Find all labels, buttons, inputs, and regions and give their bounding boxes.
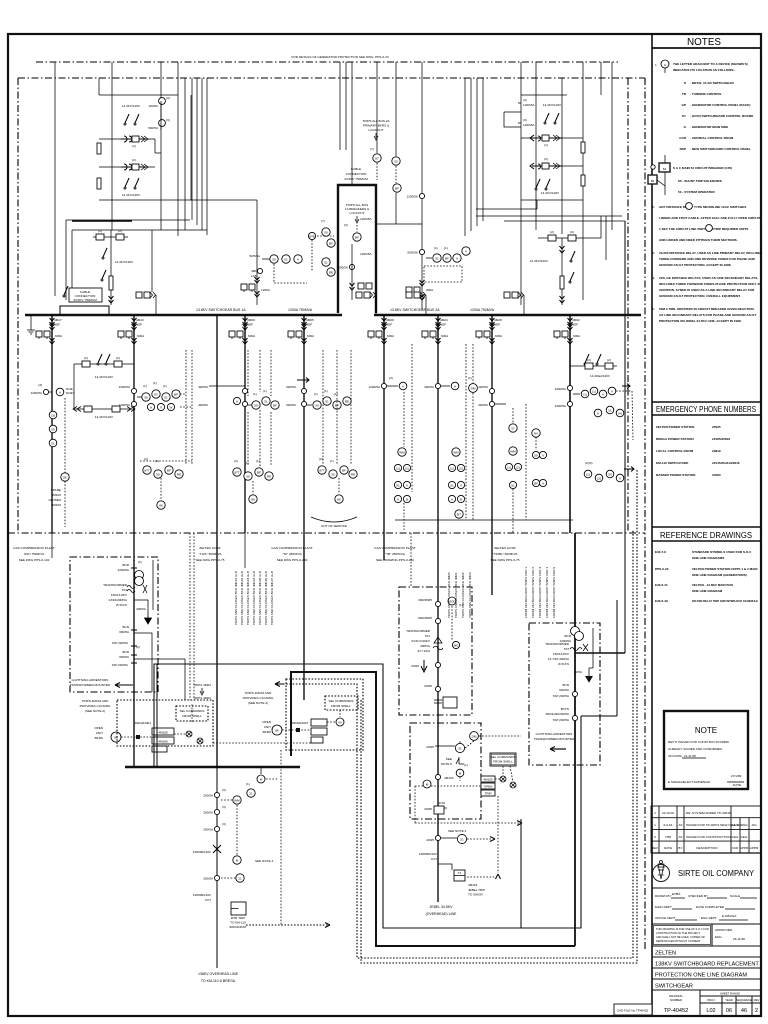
svg-text:4.: 4. (652, 276, 655, 280)
relay boxes stack (481, 776, 495, 782)
svg-text:51: 51 (458, 746, 462, 750)
svg-text:BF: BF (395, 186, 399, 190)
svg-text:REFERENCE DRAWINGS: REFERENCE DRAWINGS (660, 531, 753, 540)
svg-text:LOCAL CONTROL ROOM: LOCAL CONTROL ROOM (656, 449, 694, 453)
svg-text:JEBEL TRIP: JEBEL TRIP (468, 888, 485, 892)
svg-text:21: 21 (608, 408, 612, 412)
svg-text:600A: 600A (248, 334, 256, 338)
svg-text:138KV SWITCHBOARD REPLACEMENT: 138KV SWITCHBOARD REPLACEMENT (655, 962, 759, 968)
svg-text:(2): (2) (516, 465, 520, 469)
svg-text:ZELTEN GOSP: ZELTEN GOSP (494, 546, 515, 550)
aux relay below bus (260, 767, 262, 774)
long cable drop to T03 (624, 221, 626, 653)
svg-text:CONNECTION: CONNECTION (346, 172, 367, 176)
svg-text:LINKED AND FOOT CABLE. AFTER: LINKED AND FOOT CABLE. AFTER 12AC ARE FU… (659, 216, 761, 220)
svg-text:M: M (260, 777, 263, 781)
svg-text:138000/110V: 138000/110V (419, 852, 438, 856)
svg-text:BCR: BCR (122, 650, 129, 654)
svg-text:(1): (1) (459, 603, 463, 607)
svg-text:DM: DM (472, 734, 477, 738)
34.5kv lower bus (125, 766, 300, 769)
svg-text:1200/5A: 1200/5A (523, 103, 535, 107)
svg-text:87T: 87T (319, 468, 324, 472)
svg-text:- NEW SWITCHBOARD CONTROL PANE: - NEW SWITCHBOARD CONTROL PANEL (690, 147, 751, 151)
svg-text:(2): (2) (405, 466, 409, 470)
note breaker symbol (664, 155, 666, 195)
svg-text:TO KM-110: TO KM-110 (230, 921, 246, 925)
svg-text:PRIMARY BKRS &: PRIMARY BKRS & (363, 124, 390, 128)
dashed pair x=312 (308, 232, 315, 239)
svg-text:TO SWGR: TO SWGR (468, 893, 483, 897)
svg-text:27/1/89: 27/1/89 (731, 774, 742, 778)
svg-text:51: 51 (51, 441, 55, 445)
svg-text:43: 43 (338, 720, 342, 724)
svg-text:400/5A: 400/5A (198, 385, 209, 389)
svg-text:SEE DWG PPS-0-102: SEE DWG PPS-0-102 (19, 558, 50, 562)
svg-text:WM: WM (510, 449, 516, 453)
svg-text:600A: 600A (495, 334, 503, 338)
svg-text:120/5A: 120/5A (148, 104, 159, 108)
svg-text:24083: 24083 (712, 473, 721, 477)
svg-text:- GENERATOR MAIN SIDE: - GENERATOR MAIN SIDE (690, 125, 728, 129)
svg-text:SWGR/DIST: SWGR/DIST (229, 925, 247, 929)
svg-text:NEF: NEF (247, 323, 253, 327)
transformer T03 dash-dot box (529, 623, 600, 765)
mtr trip dotted run (246, 924, 330, 926)
svg-text:14.4KV/120V: 14.4KV/120V (115, 260, 134, 264)
svg-text:(1): (1) (163, 384, 167, 388)
svg-text:TRANSFORMER: TRANSFORMER (103, 583, 128, 587)
svg-text:SEE DWG PPS-0-75: SEE DWG PPS-0-75 (196, 558, 225, 562)
svg-text:2: 2 (755, 1008, 758, 1014)
svg-text:(3): (3) (38, 383, 42, 387)
svg-text:MD: MD (454, 643, 460, 647)
svg-text:21/400 DISTANCE RELAY, USED AS: 21/400 DISTANCE RELAY, USED AS LINE PRIM… (659, 251, 762, 255)
svg-text:AND SHALL NOT BE USED, COPIED: AND SHALL NOT BE USED, COPIED OR (656, 935, 705, 939)
svg-text:ONE LINE DIAGRAM: ONE LINE DIAGRAM (692, 589, 723, 593)
svg-text:SCALE: SCALE (730, 894, 740, 898)
svg-text:RE: RE (345, 399, 349, 403)
svg-text:NUMBER: NUMBER (670, 998, 682, 1002)
svg-text:(2)(3): (2)(3) (585, 461, 593, 465)
svg-text:4M101: 4M101 (468, 883, 478, 887)
wire bundle left (191, 78, 193, 220)
svg-text:(1): (1) (468, 376, 472, 380)
svg-text:200/5: 200/5 (426, 745, 434, 749)
svg-text:(1): (1) (324, 389, 328, 393)
svg-text:20819: 20819 (712, 449, 721, 453)
svg-text:(2): (2) (319, 457, 323, 461)
svg-text:PPS-0-23: PPS-0-23 (655, 567, 669, 571)
svg-text:4M106: 4M106 (52, 503, 62, 507)
svg-text:TRIPS ALL BUS 2A: TRIPS ALL BUS 2A (362, 119, 390, 123)
svg-text:OPEN: OPEN (262, 720, 271, 724)
svg-text:M: M (459, 771, 462, 775)
svg-text:200/5A: 200/5A (203, 877, 214, 881)
svg-text:NSP: NSP (680, 147, 686, 151)
svg-text:SPARE: SPARE (51, 488, 61, 492)
svg-text:1200A: 1200A (261, 288, 271, 292)
svg-text:MTR TRIP: MTR TRIP (231, 916, 246, 920)
svg-text:(1): (1) (464, 763, 468, 767)
svg-text:BKRS: BKRS (95, 736, 103, 740)
svg-text:20035: 20035 (712, 425, 721, 429)
svg-text:- CENTRAL CONTROL ROOM: - CENTRAL CONTROL ROOM (690, 136, 734, 140)
svg-text:50: 50 (272, 257, 276, 261)
svg-text:NEF: NEF (440, 323, 446, 327)
svg-text:50M A 50BL MOUNTED IN CIRCUIT: 50M A 50BL MOUNTED IN CIRCUIT BREAKER GI… (659, 307, 755, 311)
svg-text:APPR: APPR (740, 846, 749, 850)
svg-text:(1): (1) (263, 389, 267, 393)
svg-text:W: W (170, 405, 173, 409)
svg-text:1A5: 1A5 (251, 274, 257, 278)
transformer symbol (135, 571, 144, 580)
svg-text:51: 51 (435, 256, 439, 260)
svg-text:06: 06 (726, 1008, 732, 1014)
circles left of loop (322, 228, 330, 236)
svg-text:(SEE NOTE 2): (SEE NOTE 2) (248, 701, 268, 705)
svg-text:(1): (1) (583, 392, 587, 396)
svg-text:E.SWAGA/ELECT.SUP/ENGR: E.SWAGA/ELECT.SUP/ENGR (668, 780, 711, 784)
svg-text:TP-40452: TP-40452 (664, 1008, 689, 1014)
svg-text:(3): (3) (166, 118, 170, 122)
incomer breakers above bus (136, 292, 142, 298)
svg-text:APPR: APPR (750, 846, 759, 850)
svg-text:CVT: CVT (205, 898, 211, 902)
svg-text:ISSUED FOR CONSTRUCTION: ISSUED FOR CONSTRUCTION (686, 835, 731, 839)
svg-text:4M24: 4M24 (440, 318, 448, 322)
svg-text:(2): (2) (118, 229, 122, 233)
svg-text:S: S (684, 81, 686, 85)
svg-text:4M28: 4M28 (494, 318, 502, 322)
svg-text:DATE: DATE (664, 846, 672, 850)
svg-text:50: 50 (331, 472, 335, 476)
svg-text:34.5KV 750MCM: 34.5KV 750MCM (344, 177, 368, 181)
disconnects above bus left (63, 295, 65, 297)
long feeder from bus1A (216, 315, 218, 767)
svg-text:LIGHTNING ARRESTORS: LIGHTNING ARRESTORS (72, 678, 109, 682)
svg-text:86: 86 (251, 497, 255, 501)
svg-text:"TB" 2500KVA: "TB" 2500KVA (385, 552, 406, 556)
svg-text:1200/5A: 1200/5A (117, 568, 129, 572)
svg-text:NEF: NEF (54, 323, 60, 327)
svg-text:THE LETTER ADJACENT TO A DEVIC: THE LETTER ADJACENT TO A DEVICE (SHOWN S… (673, 62, 748, 66)
bay link line y=520 (395, 519, 573, 521)
plant boundary dash-dot top (18, 77, 645, 79)
company band with logo (652, 852, 761, 854)
svg-text:RE: RE (329, 270, 333, 274)
svg-text:CONSTRUCTION OF THE PROJECT: CONSTRUCTION OF THE PROJECT (656, 931, 700, 935)
svg-text:SEQUENCE: SEQUENCE (736, 998, 752, 1002)
svg-text:86: 86 (275, 729, 279, 733)
svg-text:BY: BY (678, 846, 682, 850)
command cluster left (80, 683, 311, 752)
svg-text:TRIPS 4M103 AND: TRIPS 4M103 AND (245, 691, 272, 695)
svg-text:PROVIDES CLOSING: PROVIDES CLOSING (243, 696, 274, 700)
svg-text:50: 50 (534, 453, 538, 457)
svg-text:(1): (1) (153, 381, 157, 385)
plant boundary dash-dot left (17, 78, 19, 533)
svg-text:(7): (7) (370, 147, 374, 151)
svg-text:200/5A: 200/5A (203, 811, 214, 815)
svg-text:7/89: 7/89 (665, 835, 671, 839)
transformer T04 dash-dot box (70, 557, 158, 692)
svg-text:SEL COMMANDS: SEL COMMANDS (329, 699, 354, 703)
svg-text:(2): (2) (607, 358, 611, 362)
svg-text:600/380/5: 600/380/5 (418, 598, 432, 602)
routing lines left (66, 219, 190, 221)
svg-text:(3): (3) (389, 376, 393, 380)
svg-text:Z=8.0%: Z=8.0% (116, 603, 127, 607)
svg-text:51: 51 (284, 257, 288, 261)
bus1A left end symbols (30, 315, 32, 330)
NOTE box (664, 711, 748, 789)
svg-text:DATE COMPLETED: DATE COMPLETED (696, 905, 725, 909)
svg-text:TAP 200/5A: TAP 200/5A (112, 641, 129, 645)
svg-text:14.4KV/120V: 14.4KV/120V (122, 104, 141, 108)
svg-text:OUT OF SERVICE: OUT OF SERVICE (321, 524, 347, 528)
svg-text:REV: REV (754, 998, 760, 1002)
svg-text:THIS DRAWING IS FOR USE OF S.O: THIS DRAWING IS FOR USE OF S.O.C FOR (656, 927, 709, 931)
svg-text:50: 50 (608, 472, 612, 476)
heavy cable branch to T03 (575, 652, 625, 654)
svg-text:S A C MAIN 52 CIRCUIT BREAKER: S A C MAIN 52 CIRCUIT BREAKER (C/B) (673, 166, 732, 170)
svg-text:AWG: AWG (740, 823, 748, 827)
svg-text:TRIPS 4M03: TRIPS 4M03 (193, 696, 211, 700)
svg-text:CEG: CEG (741, 835, 748, 839)
svg-text:(2): (2) (116, 356, 120, 360)
svg-text:M: M (426, 782, 429, 786)
svg-text:600/1100/200/5A: 600/1100/200/5A (546, 712, 570, 716)
svg-text:ZELTEN - 13.8KV MAIN BUS: ZELTEN - 13.8KV MAIN BUS (692, 583, 733, 587)
svg-text:BREGA POWER STATION: BREGA POWER STATION (656, 437, 694, 441)
svg-text:51: 51 (450, 483, 454, 487)
svg-text:BCN: BCN (562, 683, 569, 687)
svg-text:600A: 600A (441, 334, 449, 338)
svg-text:SWGR4007: SWGR4007 (292, 721, 309, 725)
svg-text:138KV OVERHEAD LINE: 138KV OVERHEAD LINE (198, 972, 239, 976)
svg-text:GROUND FAULT PROTECTION. OVERA: GROUND FAULT PROTECTION. OVERALL EQUIPME… (659, 294, 741, 298)
svg-text:SEL COMMANDS: SEL COMMANDS (491, 755, 516, 759)
svg-text:(2): (2) (570, 230, 574, 234)
svg-text:400/5A: 400/5A (424, 385, 435, 389)
heavy cable thick loop (291, 672, 575, 946)
svg-text:TRIPS AND CLOSES BKR 4M21: TRIPS AND CLOSES BKR 4M21 (454, 572, 458, 618)
svg-text:NOTE: NOTE (695, 726, 717, 735)
svg-text:(1): (1) (330, 459, 334, 463)
svg-text:21: 21 (460, 837, 464, 841)
svg-text:26.11.88: 26.11.88 (733, 937, 745, 941)
bus section x=257 (256, 200, 258, 305)
svg-text:50: 50 (254, 403, 258, 407)
svg-text:JJG: JJG (751, 823, 757, 827)
PT cluster low-right (530, 216, 601, 305)
svg-text:GSO 7500KVA: GSO 7500KVA (24, 552, 46, 556)
svg-text:600/5A: 600/5A (559, 688, 570, 692)
plant boundary dash-dot right (644, 78, 646, 950)
svg-text:51: 51 (396, 483, 400, 487)
tie rows between bay1-2 (73, 354, 135, 419)
svg-text:FROM ZELTEN GOSP T26B1 FDR 4: FROM ZELTEN GOSP T26B1 FDR 4 (545, 567, 549, 618)
svg-text:WM: WM (453, 450, 459, 454)
svg-text:138/13.8KV: 138/13.8KV (111, 593, 128, 597)
svg-text:51: 51 (164, 395, 168, 399)
svg-text:200/5A: 200/5A (203, 828, 214, 832)
svg-text:138000/110V: 138000/110V (193, 850, 212, 854)
svg-text:NEF: NEF (136, 323, 142, 327)
svg-text:"TA" 2500KVA: "TA" 2500KVA (282, 552, 303, 556)
svg-text:50 - SYSTEM OPERATED: 50 - SYSTEM OPERATED (678, 190, 715, 194)
svg-text:87B: 87B (309, 234, 315, 238)
svg-text:CEG: CEG (732, 823, 739, 827)
svg-text:BCTS: BCTS (561, 707, 569, 711)
svg-text:TRANSFORMER MOUNTED: TRANSFORMER MOUNTED (534, 737, 575, 741)
svg-text:(3): (3) (523, 118, 527, 122)
svg-text:46: 46 (741, 1008, 747, 1014)
disclaimer row (652, 924, 761, 946)
svg-text:PROTECTION ON JEBEL 34.5KV LIN: PROTECTION ON JEBEL 34.5KV LINE. ACCEPT … (659, 319, 742, 323)
bus 2A (374, 314, 641, 317)
svg-text:T04: T04 (122, 588, 128, 592)
svg-text:21.11.88: 21.11.88 (684, 754, 696, 758)
svg-text:CKD: CKD (732, 846, 739, 850)
svg-text:600A: 600A (137, 334, 145, 338)
svg-text:21: 21 (238, 876, 242, 880)
bus 1A (25, 314, 342, 317)
svg-text:1200A 750MVA: 1200A 750MVA (288, 308, 313, 312)
top drop wires left (54, 62, 56, 296)
svg-text:BT: BT (457, 512, 461, 516)
svg-text:4M105: 4M105 (483, 778, 493, 782)
svg-text:EMERGENCY PHONE NUMBERS: EMERGENCY PHONE NUMBERS (656, 405, 756, 414)
drawn-by rows (655, 892, 757, 920)
incomer relay row (433, 254, 441, 262)
svg-text:BCR: BCR (122, 563, 129, 567)
svg-text:14.4KV/120V: 14.4KV/120V (122, 193, 141, 197)
svg-text:WM: WM (234, 798, 240, 802)
svg-text:13.8KV SWITCHGEAR BUS 1A: 13.8KV SWITCHGEAR BUS 1A (196, 308, 246, 312)
plant boundary dash-dot line (8, 532, 645, 534)
svg-text:TRIPS AND CLOSES BKR 4M104 A+B: TRIPS AND CLOSES BKR 4M104 A+B (252, 571, 256, 625)
svg-text:21045/20431/20818: 21045/20431/20818 (712, 461, 740, 465)
svg-text:600A: 600A (55, 334, 63, 338)
svg-text:1200/5A: 1200/5A (368, 385, 380, 389)
svg-text:B: B (460, 497, 462, 501)
svg-text:BF: BF (273, 403, 277, 407)
svg-text:(3): (3) (344, 223, 348, 227)
svg-text:(4): (4) (618, 411, 622, 415)
lower cluster (233, 468, 241, 476)
svg-text:51: 51 (511, 483, 515, 487)
svg-text:50: 50 (246, 474, 250, 478)
svg-text:GAS COMPRESSION PLANT: GAS COMPRESSION PLANT (271, 546, 313, 550)
svg-text:GROUND FAULT PROTECTION. ACCEP: GROUND FAULT PROTECTION. ACCEPT IN 1988. (659, 263, 732, 267)
svg-text:86: 86 (651, 179, 655, 183)
svg-text:1200/5A: 1200/5A (118, 403, 130, 407)
svg-text:400/5A: 400/5A (478, 385, 489, 389)
svg-text:1: 1 (654, 823, 656, 827)
svg-text:1200/5A: 1200/5A (360, 252, 372, 256)
svg-text:CABLE: CABLE (351, 167, 361, 171)
svg-text:13/16/20MVA: 13/16/20MVA (108, 598, 127, 602)
svg-text:4M106: 4M106 (158, 740, 168, 744)
svg-text:ONE LINE DIAGRAM (GENERATORS): ONE LINE DIAGRAM (GENERATORS) (692, 573, 747, 577)
svg-text:400/5: 400/5 (426, 838, 434, 842)
svg-text:THREE FORWARD AND ONE REVERSE: THREE FORWARD AND ONE REVERSE ZONES FOR … (659, 257, 756, 261)
svg-text:(2): (2) (138, 560, 142, 564)
svg-text:57: 57 (511, 426, 515, 430)
svg-text:TO KM-110 & BREGA: TO KM-110 & BREGA (201, 979, 236, 983)
svg-text:PROTECTION ONE LINE DIAGRAM: PROTECTION ONE LINE DIAGRAM (655, 973, 747, 979)
svg-text:NON: NON (438, 801, 445, 805)
svg-text:600/5A: 600/5A (119, 655, 130, 659)
svg-text:(1): (1) (256, 459, 260, 463)
svg-text:51: 51 (324, 260, 328, 264)
svg-text:1.: 1. (655, 63, 658, 67)
svg-text:(1): (1) (507, 465, 511, 469)
svg-text:BF: BF (445, 256, 449, 260)
svg-text:GAS COMPRESSION PLANT: GAS COMPRESSION PLANT (13, 546, 55, 550)
svg-text:INDICATES ITS LOCATION AS FOLL: INDICATES ITS LOCATION AS FOLLOWS:- (673, 68, 735, 72)
svg-text:51: 51 (325, 399, 329, 403)
svg-text:600A: 600A (387, 334, 395, 338)
svg-text:1200/5A: 1200/5A (360, 217, 372, 221)
svg-text:13.7/16.33MVA: 13.7/16.33MVA (548, 657, 570, 661)
svg-text:(3): (3) (597, 476, 601, 480)
svg-text:(1): (1) (396, 466, 400, 470)
svg-text:(2): (2) (459, 466, 463, 470)
svg-text:(3): (3) (222, 822, 226, 826)
svg-text:50/5/5A: 50/5/5A (407, 251, 419, 255)
svg-text:CAD FILE No.TP40452: CAD FILE No.TP40452 (617, 1009, 649, 1013)
svg-text:E30-7-8: E30-7-8 (655, 550, 666, 554)
svg-text:600/5A: 600/5A (286, 385, 297, 389)
svg-text:50: 50 (324, 230, 328, 234)
svg-text:200/5: 200/5 (424, 684, 432, 688)
svg-text:1200/5A: 1200/5A (336, 266, 348, 270)
svg-text:RE: SYSTEM ADDED TP-4001P: RE: SYSTEM ADDED TP-4001P (686, 811, 731, 815)
svg-text:EHBA: EHBA (672, 892, 680, 896)
svg-text:NOTES: NOTES (687, 37, 721, 48)
svg-text:50: 50 (144, 395, 148, 399)
svg-text:400/5A: 400/5A (136, 607, 147, 611)
svg-text:APPROVED: APPROVED (715, 928, 733, 932)
svg-text:(1): (1) (434, 246, 438, 250)
svg-text:(SEE NOTE 2): (SEE NOTE 2) (85, 709, 105, 713)
svg-text:4M17: 4M17 (54, 318, 62, 322)
svg-text:ONE LINE DIAGRAMS: ONE LINE DIAGRAMS (692, 556, 724, 560)
svg-text:INCLUDES THREE FORWARD ZONES P: INCLUDES THREE FORWARD ZONES PHASE PROTE… (659, 282, 762, 286)
svg-text:TAP 200/5A: TAP 200/5A (553, 694, 570, 698)
disconnect row right (570, 365, 617, 367)
svg-text:AS LINE SECONDARY RELAYS FOR P: AS LINE SECONDARY RELAYS FOR PHASE AND G… (659, 313, 756, 317)
svg-text:51: 51 (264, 399, 268, 403)
svg-text:600/5A: 600/5A (286, 403, 297, 407)
svg-text:13.8KV SWITCHGEAR BUS 2A: 13.8KV SWITCHGEAR BUS 2A (390, 308, 440, 312)
svg-text:34.5/13.09KV: 34.5/13.09KV (411, 639, 431, 643)
svg-text:87: 87 (375, 156, 379, 160)
svg-text:3.: 3. (652, 251, 655, 255)
svg-text:E30-6-49: E30-6-49 (655, 599, 668, 603)
svg-text:(2): (2) (132, 158, 136, 162)
svg-text:OFFICE DEPT: OFFICE DEPT (655, 916, 676, 920)
svg-text:SEE DRAWING PPS-0-202: SEE DRAWING PPS-0-202 (376, 558, 414, 562)
svg-text:TRIP: TRIP (484, 792, 491, 796)
svg-text:1200/5A: 1200/5A (30, 391, 42, 395)
svg-text:(3): (3) (222, 805, 226, 809)
svg-text:OPEN: OPEN (94, 726, 103, 730)
svg-text:TRIPS AND CLOSES BKR 4M20: TRIPS AND CLOSES BKR 4M20 (447, 572, 451, 618)
